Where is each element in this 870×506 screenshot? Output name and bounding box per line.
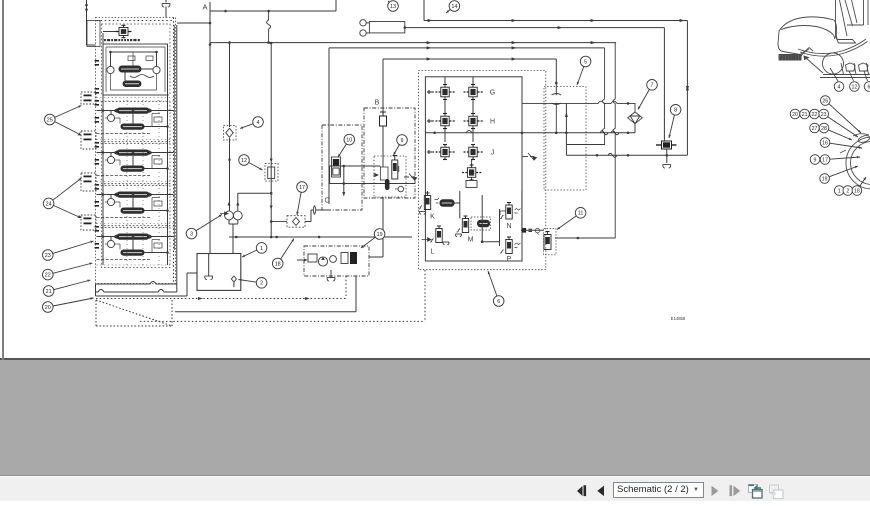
oil cooler item 7 <box>628 112 643 124</box>
tractor callout 4 <box>834 82 844 92</box>
small pilot box <box>128 56 135 61</box>
jump line x268 <box>267 11 271 43</box>
wire <box>156 52 158 66</box>
tank inlet line <box>96 273 198 296</box>
valve N <box>500 203 512 220</box>
small box under valve <box>466 181 477 188</box>
N left bracket <box>500 211 506 215</box>
wire block to A <box>177 22 210 24</box>
callout 18 <box>272 239 294 269</box>
svg-text:K: K <box>430 214 435 221</box>
svg-text:H: H <box>490 119 495 126</box>
line to C port <box>328 48 330 204</box>
wheel callout 28 <box>819 123 852 140</box>
svg-text:1: 1 <box>260 246 263 252</box>
inner line <box>106 46 165 48</box>
wheel callout 20 <box>790 109 800 119</box>
wheel callout 22 <box>810 109 820 119</box>
left valve block outer dashed box <box>96 18 176 284</box>
port box ticks <box>84 176 92 183</box>
wire <box>499 209 501 246</box>
last page button (disabled) <box>730 485 741 496</box>
dotted separator <box>97 223 174 225</box>
wire <box>459 191 461 219</box>
wire <box>111 89 157 91</box>
wire <box>423 0 425 21</box>
return row line y133 <box>425 132 635 134</box>
wire <box>471 160 473 165</box>
svg-text:22: 22 <box>45 273 51 279</box>
wire x566 <box>565 103 567 155</box>
dotted separator <box>97 264 174 266</box>
main line y43 <box>210 42 616 44</box>
relief valve left edge <box>404 174 417 181</box>
manifold bottom line 2 <box>96 290 177 293</box>
callout 12 middle <box>239 155 263 170</box>
valve M pilot <box>457 216 469 233</box>
line y59 <box>383 58 556 60</box>
ground under valve 8 <box>663 165 671 169</box>
svg-text:A: A <box>202 3 207 12</box>
callout 10 <box>338 134 355 157</box>
relief valve <box>522 153 536 160</box>
vertical x615.2 with jumps <box>555 43 615 238</box>
cooler feed line y103 <box>522 101 635 112</box>
tandem pump <box>220 192 273 254</box>
svg-text:7: 7 <box>651 83 654 89</box>
wheel callout 16 <box>820 138 862 149</box>
callout 6 <box>488 271 504 306</box>
valve K spool <box>440 199 455 207</box>
dotted separator <box>97 97 174 99</box>
callout 14 <box>446 1 460 13</box>
Q port marks <box>521 229 532 233</box>
callout 24 <box>43 178 81 209</box>
long vertical x271 <box>270 43 272 237</box>
main control valve dashed box <box>418 71 545 270</box>
left block inner dotted column <box>173 18 175 284</box>
pump assembly item 19 <box>297 246 383 281</box>
svg-text:11: 11 <box>578 211 584 217</box>
top left port module <box>87 21 100 47</box>
svg-text:J: J <box>491 150 495 157</box>
svg-text:L: L <box>431 249 435 256</box>
accumulator cylinders <box>369 22 404 33</box>
wire B down <box>382 126 384 167</box>
dotted vertical <box>424 270 426 321</box>
bump on row line <box>466 131 472 133</box>
svg-text:22: 22 <box>812 112 818 118</box>
check ball right <box>153 66 160 73</box>
dotted separator <box>97 139 174 141</box>
wire <box>634 124 636 133</box>
wire <box>481 195 483 242</box>
schematic page <box>0 0 870 360</box>
right bus B <box>173 25 175 250</box>
check valve item 4 <box>224 126 237 212</box>
arrow on x687 <box>686 86 689 91</box>
callout 23 <box>43 241 94 261</box>
long vertical x687 <box>686 21 688 156</box>
wire <box>355 276 357 312</box>
svg-text:16: 16 <box>822 140 828 146</box>
back icon (layered squares with teal arrow) <box>749 485 763 499</box>
port box ticks <box>84 218 92 225</box>
small pilot box <box>146 56 153 61</box>
right bus A <box>176 25 178 284</box>
feed line from top left <box>85 0 95 45</box>
tractor leaders <box>830 68 868 81</box>
solenoid valve bottom <box>462 165 481 180</box>
inner line <box>105 47 107 92</box>
port box ticks <box>84 134 92 141</box>
callout 4 middle <box>240 117 263 129</box>
orifice <box>552 92 562 133</box>
dotted separator 2 <box>97 100 174 102</box>
valve label ACCU <box>123 81 142 88</box>
long line y21 <box>424 20 687 22</box>
line y155 <box>566 154 687 156</box>
callout 19 <box>361 229 385 248</box>
callout 5 <box>577 56 591 85</box>
svg-text:3: 3 <box>190 232 193 238</box>
up arrow x566 <box>565 112 568 117</box>
svg-text:5: 5 <box>584 59 587 65</box>
port box <box>81 215 96 230</box>
pilot supply dashed box B <box>364 108 415 198</box>
svg-text:18: 18 <box>275 261 281 267</box>
ground L <box>443 242 449 245</box>
svg-text:G: G <box>490 90 495 97</box>
valve module 3 <box>97 144 174 184</box>
dotted drain line <box>96 298 346 300</box>
svg-text:19: 19 <box>377 232 383 238</box>
valve module 2 <box>97 102 174 142</box>
valve Q vertical <box>544 232 551 250</box>
valve item 8 <box>656 141 677 149</box>
port box ticks <box>84 95 92 102</box>
callout 7 <box>638 80 657 110</box>
wire <box>455 202 460 204</box>
manifold bottom line 1 <box>96 282 177 285</box>
svg-text:23: 23 <box>821 112 827 118</box>
dotted separator <box>97 181 174 183</box>
dotted line y321 <box>140 320 425 322</box>
wire <box>444 77 446 84</box>
valve grid solid box <box>425 77 522 261</box>
wire <box>176 284 178 292</box>
port ticks left edge <box>95 60 99 249</box>
svg-text:9: 9 <box>814 157 817 163</box>
svg-text:8: 8 <box>674 108 677 114</box>
callout 24 second leader <box>53 205 78 216</box>
callout 22 <box>43 263 93 280</box>
svg-text:B: B <box>375 100 380 107</box>
pilot valve V1 <box>116 25 132 37</box>
dotted separator 2 <box>97 142 174 144</box>
svg-text:N: N <box>506 223 511 230</box>
forward icon (disabled) <box>770 485 784 499</box>
next page button (disabled) <box>712 486 719 497</box>
K wvv mark <box>435 198 440 203</box>
solenoid valve row G col2 <box>464 85 483 100</box>
svg-text:23: 23 <box>45 253 51 259</box>
wire <box>124 73 126 81</box>
wire <box>95 284 97 296</box>
dotted separator 2 <box>97 184 174 186</box>
svg-text:17: 17 <box>822 157 828 163</box>
svg-text:17: 17 <box>299 185 305 191</box>
port box <box>81 92 96 104</box>
wheel callout 23 <box>819 109 858 137</box>
wire <box>156 74 158 90</box>
wavy pilot line <box>130 75 154 78</box>
dotted row top <box>97 20 175 22</box>
main line y48 <box>329 47 605 49</box>
svg-text:C: C <box>324 198 329 205</box>
svg-text:20: 20 <box>792 112 798 118</box>
dashed triangle drain <box>96 300 172 326</box>
left internal bus <box>102 33 104 265</box>
svg-text:6: 6 <box>497 299 500 305</box>
wire <box>103 31 116 33</box>
line y312 <box>175 311 356 313</box>
svg-text:Q: Q <box>535 228 541 235</box>
wire to valve 8 <box>663 28 665 141</box>
callout 25 second leader <box>55 122 79 134</box>
svg-text:2: 2 <box>846 188 849 194</box>
wheel callout 19 <box>820 166 858 183</box>
callout 8 <box>669 105 681 139</box>
wheel detail <box>840 134 870 189</box>
ground M <box>456 234 462 237</box>
wire top y11 <box>210 10 336 12</box>
vertical x604.6 with jumps <box>566 48 604 145</box>
long line y28 <box>405 27 664 29</box>
callout 25 left <box>45 106 82 125</box>
callout 21 <box>43 280 90 297</box>
wire <box>444 100 446 113</box>
valve K pilot <box>419 193 431 210</box>
svg-text:9: 9 <box>401 138 404 144</box>
svg-text:4: 4 <box>838 84 841 90</box>
svg-text:25: 25 <box>47 117 53 123</box>
dashed box around Q valve <box>544 229 556 255</box>
wire <box>110 74 112 90</box>
dotted wire <box>345 276 347 299</box>
wire to B valve <box>382 59 384 116</box>
wheel callout 9 <box>810 155 820 165</box>
dashed box M spool <box>471 217 491 230</box>
bottom toolbar <box>0 476 870 501</box>
wheel callout 17 <box>820 155 860 165</box>
return line y237 <box>229 236 412 238</box>
pump line down <box>229 43 231 127</box>
valve P <box>500 237 512 254</box>
svg-text:24: 24 <box>46 201 52 207</box>
first page button <box>577 485 586 496</box>
svg-text:28: 28 <box>821 126 827 132</box>
P spring <box>515 243 521 248</box>
svg-text:E14858: E14858 <box>671 316 686 321</box>
valve M spool <box>477 220 490 228</box>
wire <box>521 191 523 230</box>
dotted internal vertical <box>126 100 128 265</box>
callout 9 middle <box>394 135 408 155</box>
solenoid valve row J col2 <box>464 145 483 160</box>
B valve <box>380 112 387 126</box>
wire <box>522 229 544 231</box>
solenoid valve row H col1 <box>436 114 455 129</box>
svg-text:P: P <box>507 256 512 263</box>
wire T to block <box>165 7 167 18</box>
N spring <box>515 209 521 214</box>
dotted internal vertical <box>142 100 144 265</box>
inner line <box>164 47 166 92</box>
wire <box>427 191 429 196</box>
wire <box>472 77 474 84</box>
module 1 solid sub-box <box>103 44 168 95</box>
svg-text:2: 2 <box>260 281 263 287</box>
svg-text:12: 12 <box>852 84 858 90</box>
wheel callout 2 <box>843 186 853 196</box>
previous page button <box>597 486 604 497</box>
wire <box>111 51 157 53</box>
tank symbol T top <box>162 4 170 8</box>
svg-text:21: 21 <box>46 289 52 295</box>
wire <box>165 0 167 3</box>
cooler return line y132.8 breaks <box>598 131 617 133</box>
reservoir tank <box>197 254 241 291</box>
wheel callout 21 <box>800 109 810 119</box>
valve module 5 <box>97 228 174 268</box>
tractor line art <box>778 0 870 78</box>
wire <box>472 100 474 113</box>
callout 1 <box>242 243 267 257</box>
solenoid valve row G col1 <box>436 85 455 100</box>
wire <box>335 0 337 11</box>
valve module 4 <box>97 186 174 226</box>
port box <box>81 173 96 191</box>
solenoid valve row H col2 <box>464 114 483 129</box>
svg-text:19: 19 <box>822 176 828 182</box>
wire <box>521 77 523 104</box>
svg-text:M: M <box>468 237 474 244</box>
wire <box>142 68 153 70</box>
solenoid valve row J col1 <box>436 145 455 160</box>
dotted internal vertical <box>158 100 160 265</box>
svg-text:14: 14 <box>451 4 457 10</box>
wheel callout 1 <box>834 186 844 196</box>
svg-text:4: 4 <box>257 120 260 126</box>
line A vertical <box>209 2 211 254</box>
item 9 filter assembly <box>373 156 406 198</box>
svg-text:13: 13 <box>390 4 396 10</box>
callout 2 <box>239 278 267 289</box>
valve L <box>430 226 442 243</box>
svg-text:1: 1 <box>838 188 841 194</box>
valve item 12 <box>265 159 278 210</box>
wire <box>666 149 668 163</box>
check ball left <box>107 66 114 73</box>
svg-text:12: 12 <box>241 158 247 164</box>
L port arrow <box>422 238 432 241</box>
wheel callout 27 <box>810 123 820 133</box>
svg-text:10: 10 <box>346 138 352 144</box>
wire <box>472 129 474 142</box>
left port mark <box>427 90 434 94</box>
valve spool label PRESS <box>119 66 142 73</box>
svg-text:26: 26 <box>822 98 828 104</box>
ground K <box>420 212 426 215</box>
wheel callout 26 <box>821 96 862 133</box>
wire <box>444 129 446 142</box>
callout 3 <box>186 215 222 239</box>
svg-text:27: 27 <box>812 126 818 132</box>
wire filter to pump assy <box>382 197 384 257</box>
svg-text:21: 21 <box>802 112 808 118</box>
tractor callout right edge <box>864 82 870 92</box>
arrowheads dotted <box>198 297 203 300</box>
callout 11 <box>557 208 586 230</box>
left port mark <box>427 150 434 154</box>
wheel callout 18 <box>852 177 866 195</box>
filter item 17 <box>270 206 329 228</box>
wire <box>555 59 557 92</box>
wire <box>110 52 112 66</box>
label strip module1 <box>104 39 140 41</box>
wire <box>132 52 134 66</box>
gray background band <box>0 360 870 476</box>
module 1 dashed box <box>102 24 171 95</box>
dashed box item 5 <box>544 87 586 190</box>
svg-text:18: 18 <box>854 188 860 194</box>
callout 13 <box>388 1 399 12</box>
port box <box>81 131 96 149</box>
callout 20 <box>43 297 94 312</box>
sub-box right bus <box>167 44 169 265</box>
tractor callout 12 <box>850 82 860 92</box>
wire <box>482 241 499 243</box>
callout 17 <box>296 182 307 215</box>
regulator box item 10 <box>322 125 415 210</box>
svg-text:20: 20 <box>45 305 51 311</box>
dotted separator 2 <box>97 226 174 228</box>
left port mark <box>427 119 434 123</box>
